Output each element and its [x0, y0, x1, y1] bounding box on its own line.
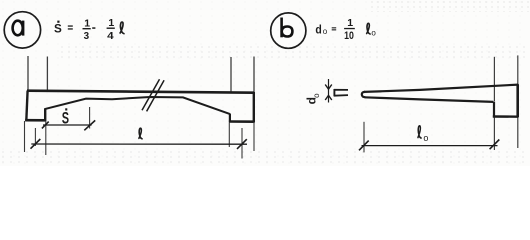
svg-text:o: o	[323, 27, 328, 36]
svg-text:S: S	[54, 22, 62, 36]
svg-text:1: 1	[347, 17, 353, 29]
svg-text:10: 10	[344, 30, 354, 42]
svg-text:4: 4	[107, 30, 114, 42]
svg-text:d: d	[315, 23, 321, 37]
svg-text:o: o	[423, 133, 428, 143]
svg-text:o: o	[312, 93, 321, 98]
svg-text:1: 1	[108, 17, 114, 29]
svg-text:o: o	[371, 29, 376, 38]
svg-text:3: 3	[84, 30, 90, 42]
svg-text:S: S	[62, 108, 69, 127]
svg-text:1: 1	[84, 18, 90, 30]
